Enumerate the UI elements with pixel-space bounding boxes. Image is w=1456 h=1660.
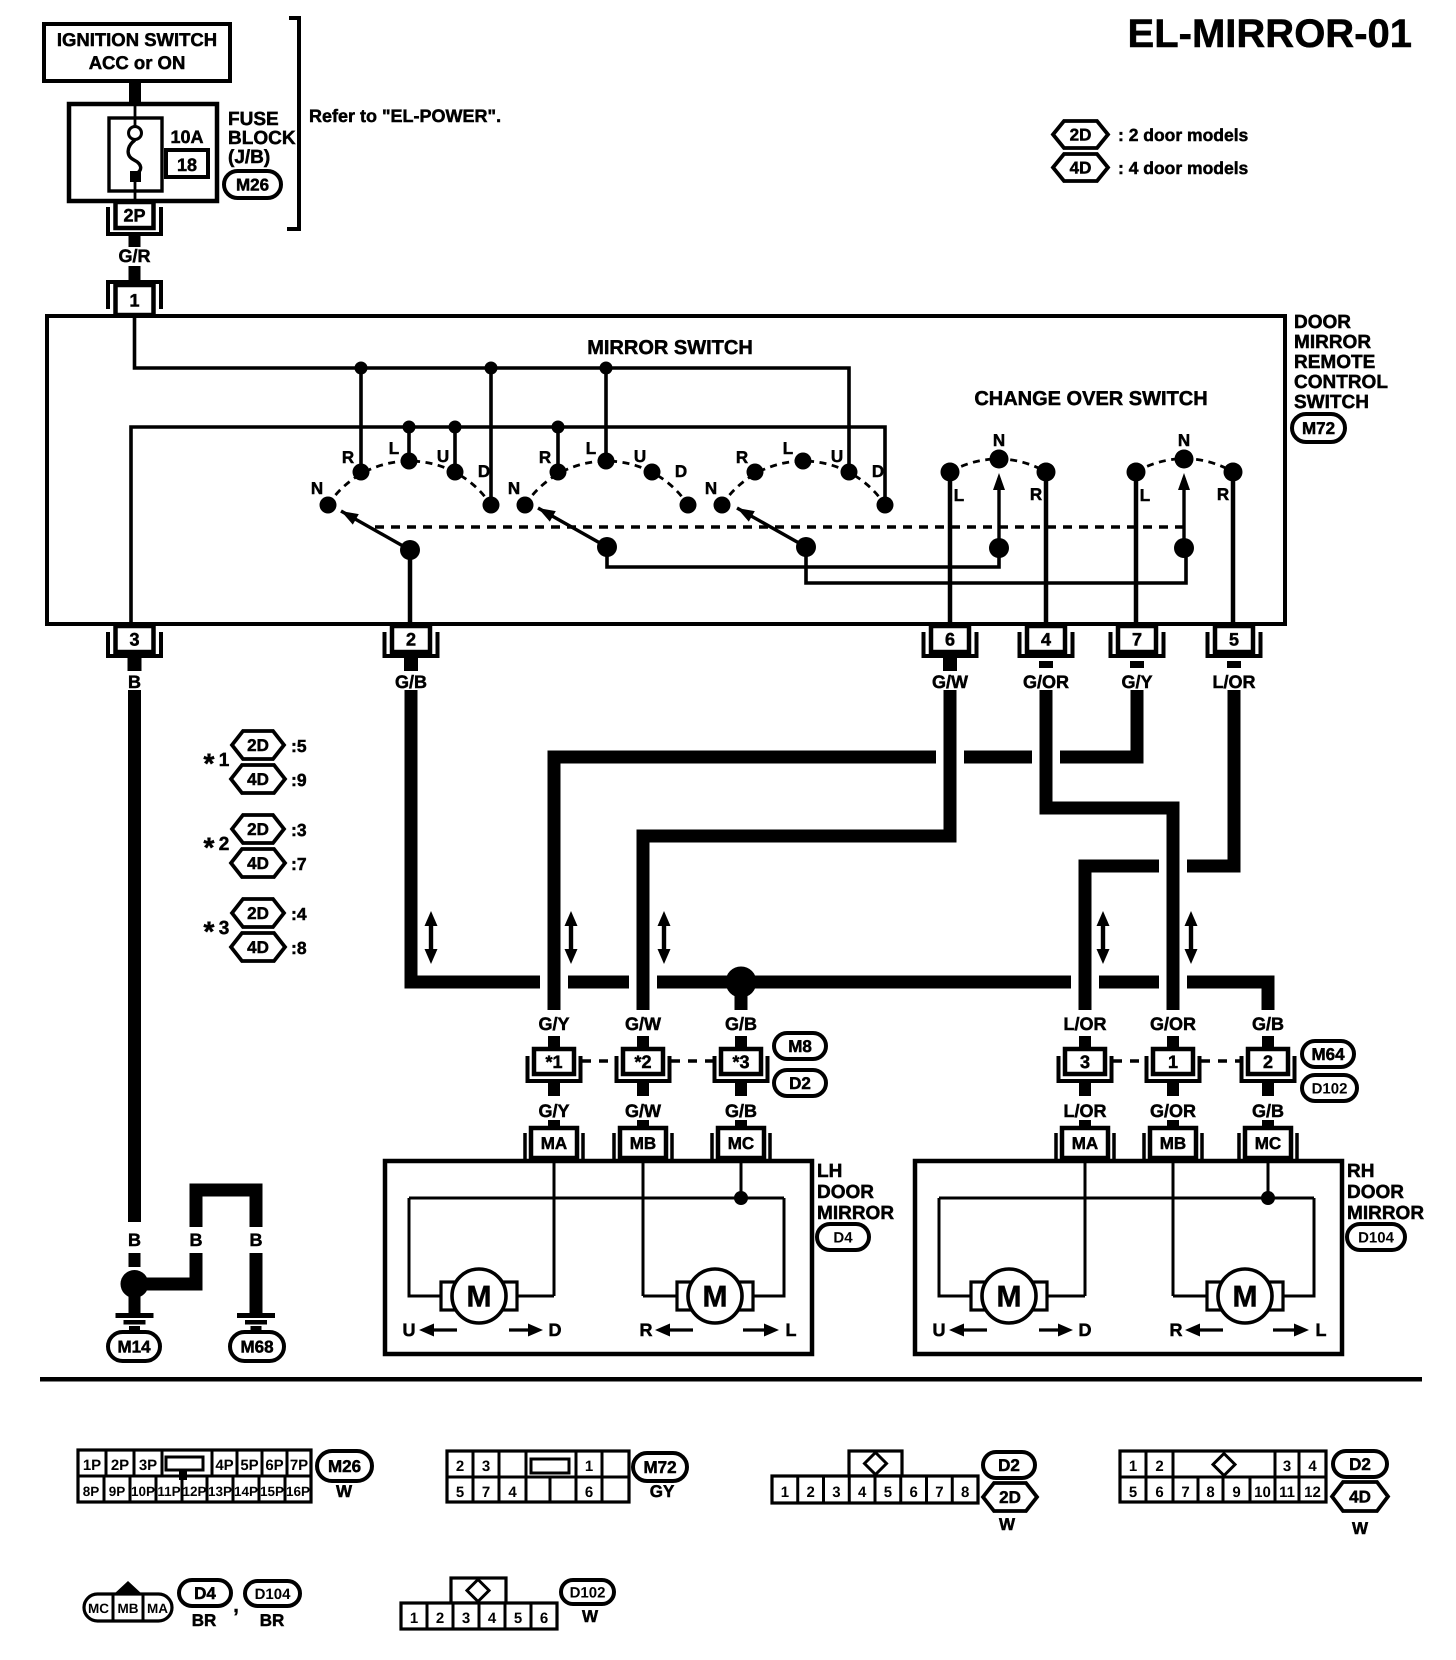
connector M72 pill and color xyxy=(633,1453,687,1481)
svg-text:D2: D2 xyxy=(789,1074,811,1093)
LH internal wires xyxy=(553,1163,556,1296)
LH door mirror box xyxy=(385,1161,812,1354)
legend 4D hexagon : 4 door models xyxy=(1053,154,1108,181)
svg-text:*: * xyxy=(204,832,215,863)
svg-text:3: 3 xyxy=(1283,1458,1291,1475)
svg-text:R: R xyxy=(342,448,354,467)
svg-text:3: 3 xyxy=(462,1610,470,1627)
svg-text:FUSE: FUSE xyxy=(228,109,279,130)
note *1 4D value xyxy=(231,765,285,793)
svg-text:2: 2 xyxy=(436,1610,444,1627)
svg-text:4D: 4D xyxy=(1349,1488,1371,1507)
svg-text:D2: D2 xyxy=(1349,1455,1371,1474)
connector D104 pill xyxy=(1347,1224,1405,1250)
4D hexagon bottom xyxy=(1332,1482,1388,1511)
svg-text:MA: MA xyxy=(147,1601,168,1616)
svg-text:3: 3 xyxy=(832,1484,840,1501)
svg-text:U: U xyxy=(437,447,449,466)
bus line1 from pin 1 xyxy=(135,318,850,468)
svg-text:8: 8 xyxy=(961,1484,969,1501)
wire L/OR segment 2 xyxy=(1085,866,1159,1010)
inline connector 2 xyxy=(1242,1056,1295,1081)
wire stub to mirror connector xyxy=(637,1120,649,1128)
svg-text:3: 3 xyxy=(1080,1052,1090,1072)
svg-text:1: 1 xyxy=(1168,1052,1178,1072)
wire stub to mirror connector xyxy=(1079,1120,1091,1128)
svg-text:4D: 4D xyxy=(247,854,269,873)
svg-text::3: :3 xyxy=(291,820,307,840)
svg-text:D: D xyxy=(549,1320,562,1340)
inline connector *1 xyxy=(528,1056,581,1081)
svg-text:M68: M68 xyxy=(240,1338,273,1357)
svg-text:2: 2 xyxy=(219,834,230,855)
svg-text:1: 1 xyxy=(781,1484,789,1501)
svg-text:2D: 2D xyxy=(1070,126,1092,145)
svg-text:R: R xyxy=(736,448,748,467)
mirror connector MB xyxy=(612,1133,616,1163)
svg-text:G/B: G/B xyxy=(725,1014,757,1034)
wire G/B bus to RH pin 2 xyxy=(1187,982,1268,1010)
wire L/OR from pin 5 segment 1 xyxy=(1187,690,1234,866)
door mirror remote control switch box M72 xyxy=(47,316,1285,624)
svg-text:W: W xyxy=(336,1482,353,1501)
separator line xyxy=(40,1377,1422,1382)
svg-text:R: R xyxy=(1217,485,1229,504)
svg-text:2D: 2D xyxy=(247,820,269,839)
mirror switch section 1 contacts N R L U D xyxy=(320,497,337,514)
RH door mirror box xyxy=(915,1161,1342,1354)
changeover wiper A with vertical arrow xyxy=(989,538,1009,558)
svg-text:G/Y: G/Y xyxy=(538,1014,569,1034)
wire B branch to M68 xyxy=(135,1253,197,1284)
svg-text:MA: MA xyxy=(541,1134,567,1153)
svg-text:*: * xyxy=(204,916,215,947)
wire B stub to junction xyxy=(129,1253,141,1267)
svg-text:2D: 2D xyxy=(247,904,269,923)
svg-text:MC: MC xyxy=(1255,1134,1281,1153)
svg-text:D4: D4 xyxy=(833,1229,853,1246)
svg-text:RH: RH xyxy=(1347,1161,1374,1182)
svg-text:R: R xyxy=(1030,485,1042,504)
svg-text:5P: 5P xyxy=(240,1457,258,1474)
wiper section 2 with arrow xyxy=(597,537,617,557)
bus line2 to pin 3 xyxy=(131,427,885,622)
RH mirror motor left-right M xyxy=(1207,1282,1229,1310)
connector pin 1 of M72 xyxy=(108,282,161,309)
ground symbol M14 xyxy=(116,1313,154,1318)
svg-text:5: 5 xyxy=(514,1610,522,1627)
svg-text:13P: 13P xyxy=(208,1484,232,1499)
LH mirror motor left-right M xyxy=(677,1282,699,1310)
svg-text:DOOR: DOOR xyxy=(1347,1182,1404,1203)
svg-text::5: :5 xyxy=(291,736,307,756)
mirror connector MB xyxy=(1142,1133,1146,1163)
RH junction dot xyxy=(1261,1191,1275,1205)
svg-text:4D: 4D xyxy=(247,770,269,789)
svg-text:6: 6 xyxy=(585,1484,593,1501)
pass-through arrows xyxy=(425,911,438,926)
svg-text:MIRROR: MIRROR xyxy=(1294,332,1371,353)
svg-text:U: U xyxy=(831,447,843,466)
svg-text:CONTROL: CONTROL xyxy=(1294,372,1388,393)
connector D2 pill 4door xyxy=(1333,1451,1387,1477)
svg-text:MA: MA xyxy=(1072,1134,1098,1153)
svg-text:N: N xyxy=(311,479,323,498)
changeover section A contacts L N R xyxy=(941,463,960,482)
legend 2D hexagon : 2 door models xyxy=(1053,121,1108,148)
mirror connector MC xyxy=(1237,1133,1241,1163)
wire ignition to fuse block xyxy=(129,81,141,104)
svg-text:4D: 4D xyxy=(247,938,269,957)
connector D4 pill bottom xyxy=(179,1580,231,1606)
svg-text:G/W: G/W xyxy=(625,1014,661,1034)
svg-text:G/OR: G/OR xyxy=(1150,1101,1196,1121)
connector D102 pill xyxy=(1302,1075,1357,1101)
connector 2P xyxy=(108,207,161,234)
wire G/Y from pin 7 segment 1 xyxy=(1060,690,1137,757)
svg-text:10: 10 xyxy=(1254,1484,1271,1501)
connector face MC MB MA xyxy=(84,1594,172,1621)
connector 3 stub xyxy=(1079,1036,1091,1049)
svg-text:1: 1 xyxy=(1129,1458,1137,1475)
ground symbol M68 xyxy=(237,1313,275,1318)
svg-text:12: 12 xyxy=(1304,1484,1321,1501)
svg-text:D: D xyxy=(1079,1320,1092,1340)
connector D4 pill xyxy=(817,1224,869,1250)
svg-text:*2: *2 xyxy=(634,1052,651,1072)
svg-text:G/B: G/B xyxy=(1252,1101,1284,1121)
connector D102 pill bottom xyxy=(561,1580,614,1604)
RH mirror motor up-down M xyxy=(971,1282,993,1310)
svg-text:8P: 8P xyxy=(83,1484,100,1499)
svg-text:L/OR: L/OR xyxy=(1064,1101,1107,1121)
svg-text:4P: 4P xyxy=(215,1457,233,1474)
svg-text:2P: 2P xyxy=(111,1457,129,1474)
wire G/B junction drop xyxy=(735,982,748,1010)
ground junction dot xyxy=(121,1270,149,1298)
svg-text:U: U xyxy=(403,1320,416,1340)
refer bracket xyxy=(287,18,299,229)
mirror switch section 2 contacts N R L U D xyxy=(517,497,534,514)
mirror connector MC xyxy=(710,1133,714,1163)
fuse number 18 box xyxy=(166,150,208,177)
fuse 18 inner box xyxy=(109,118,162,191)
junction G/B bus xyxy=(726,967,757,998)
svg-text:4: 4 xyxy=(508,1484,517,1501)
svg-text:REMOTE: REMOTE xyxy=(1294,352,1375,373)
svg-text:: 2 door models: : 2 door models xyxy=(1118,125,1249,145)
svg-text:MIRROR SWITCH: MIRROR SWITCH xyxy=(587,337,753,359)
svg-text:D: D xyxy=(872,462,884,481)
svg-text:L/OR: L/OR xyxy=(1213,672,1256,692)
svg-text:2: 2 xyxy=(1263,1052,1273,1072)
svg-text:5: 5 xyxy=(884,1484,892,1501)
svg-text:LH: LH xyxy=(817,1161,842,1182)
svg-text:4: 4 xyxy=(1308,1458,1317,1475)
connector 2 stub xyxy=(1262,1036,1274,1049)
svg-text:G/R: G/R xyxy=(118,246,150,266)
junction dots line1 xyxy=(355,362,368,375)
svg-text:3P: 3P xyxy=(139,1457,157,1474)
changeover section B contact wires to pins xyxy=(1134,472,1139,622)
svg-text:18: 18 xyxy=(177,155,197,175)
wiper 2 wire to changeover wiper A xyxy=(607,547,999,567)
svg-text:W: W xyxy=(999,1515,1016,1534)
svg-text:D2: D2 xyxy=(998,1456,1020,1475)
svg-text:M: M xyxy=(997,1281,1022,1314)
svg-text:W: W xyxy=(1352,1519,1369,1538)
svg-text:R: R xyxy=(539,448,551,467)
svg-text:N: N xyxy=(705,479,717,498)
svg-text:*1: *1 xyxy=(545,1052,562,1072)
svg-text:L: L xyxy=(389,439,399,458)
svg-text:EL-MIRROR-01: EL-MIRROR-01 xyxy=(1128,12,1412,56)
wire G/B bus segment 2 xyxy=(568,976,629,989)
wire stub to mirror connector xyxy=(1262,1120,1274,1128)
wiper 1 wire to pin 2 xyxy=(408,550,413,624)
svg-text:G/B: G/B xyxy=(1252,1014,1284,1034)
connector pin 4 of M72 xyxy=(1020,632,1073,656)
wire B from pin 3 xyxy=(128,690,141,1222)
svg-text:MIRROR: MIRROR xyxy=(817,1203,894,1224)
mirror switch section 1 dashed arc xyxy=(328,461,491,505)
svg-text:R: R xyxy=(640,1320,653,1340)
changeover wiper B with vertical arrow xyxy=(1174,538,1194,558)
svg-text:4: 4 xyxy=(488,1610,497,1627)
svg-text:G/OR: G/OR xyxy=(1023,672,1069,692)
ignition switch box xyxy=(44,24,230,81)
svg-text:D: D xyxy=(478,462,490,481)
svg-text:10P: 10P xyxy=(131,1484,155,1499)
changeover section B contacts L N R xyxy=(1127,463,1146,482)
wire G/R stub xyxy=(129,266,141,282)
svg-text:G/Y: G/Y xyxy=(538,1101,569,1121)
svg-text:G/W: G/W xyxy=(932,672,968,692)
svg-text:8: 8 xyxy=(1206,1484,1214,1501)
svg-text:1P: 1P xyxy=(83,1457,101,1474)
svg-text:D4: D4 xyxy=(194,1584,216,1603)
svg-text:7: 7 xyxy=(1132,629,1142,649)
svg-text:(J/B): (J/B) xyxy=(228,147,270,168)
ground M14 pill xyxy=(108,1332,160,1361)
mirror switch section 2 dashed arc xyxy=(525,461,688,505)
svg-text:MC: MC xyxy=(728,1134,754,1153)
svg-text:1: 1 xyxy=(219,750,230,771)
svg-text:N: N xyxy=(1178,431,1190,450)
svg-text:BR: BR xyxy=(192,1611,217,1630)
note *3 4D value xyxy=(231,933,285,961)
svg-text:2: 2 xyxy=(806,1484,814,1501)
mirror connector MA xyxy=(1054,1133,1058,1163)
inline connector 3 xyxy=(1059,1056,1112,1081)
svg-text:MB: MB xyxy=(630,1134,656,1153)
connector M64 pill xyxy=(1302,1041,1354,1067)
svg-text:2D: 2D xyxy=(247,736,269,755)
connector pin 3 of M72 xyxy=(108,632,161,656)
svg-text:G/W: G/W xyxy=(625,1101,661,1121)
svg-text:M14: M14 xyxy=(117,1338,151,1357)
connector D104 pill bottom xyxy=(245,1581,300,1606)
svg-text:7: 7 xyxy=(935,1484,943,1501)
connector *2 stub xyxy=(637,1036,649,1049)
svg-text:1: 1 xyxy=(585,1458,593,1475)
svg-text:N: N xyxy=(993,431,1005,450)
svg-text:G/OR: G/OR xyxy=(1150,1014,1196,1034)
svg-text::7: :7 xyxy=(291,854,307,874)
svg-text:2: 2 xyxy=(456,1458,464,1475)
svg-text:9: 9 xyxy=(1232,1484,1240,1501)
svg-text:6: 6 xyxy=(540,1610,548,1627)
svg-text:B: B xyxy=(128,1230,141,1250)
connector face D2 4door grid xyxy=(1120,1451,1326,1502)
mirror switch section 3 dashed arc xyxy=(722,461,885,505)
connector face D2 2door grid xyxy=(849,1451,902,1476)
svg-text:14P: 14P xyxy=(234,1484,258,1499)
svg-text:MC: MC xyxy=(88,1601,109,1616)
svg-text:M26: M26 xyxy=(236,176,269,195)
svg-text:L: L xyxy=(586,439,596,458)
wire stub to mirror connector xyxy=(735,1120,747,1128)
connector pin 5 of M72 xyxy=(1208,632,1261,656)
wiper 3 wire to changeover wiper B xyxy=(806,547,1186,583)
svg-text:3: 3 xyxy=(219,918,230,939)
svg-text:R: R xyxy=(1170,1320,1183,1340)
svg-text:N: N xyxy=(508,479,520,498)
svg-text:5: 5 xyxy=(1129,1484,1137,1501)
svg-text:IGNITION SWITCH: IGNITION SWITCH xyxy=(57,29,217,50)
wire G/B bus segment 4 xyxy=(1099,976,1159,989)
svg-text:L: L xyxy=(1140,486,1150,505)
svg-text:L: L xyxy=(954,486,964,505)
svg-text:B: B xyxy=(190,1230,203,1250)
wire B to M68 ground xyxy=(250,1253,263,1315)
svg-text:6: 6 xyxy=(1155,1484,1163,1501)
svg-text:B: B xyxy=(250,1230,263,1250)
RH internal wires xyxy=(1084,1163,1087,1296)
svg-text:10A: 10A xyxy=(170,127,203,147)
svg-text:M: M xyxy=(703,1281,728,1314)
wire stub to mirror connector xyxy=(1167,1120,1179,1128)
svg-text:U: U xyxy=(933,1320,946,1340)
svg-text:5: 5 xyxy=(1229,629,1239,649)
connector pin 6 of M72 xyxy=(924,632,977,656)
wire G/OR from pin 4 xyxy=(1046,690,1173,1010)
changeover section B dashed arc xyxy=(1136,459,1233,472)
connector 1 stub xyxy=(1167,1036,1179,1049)
mirror connector MA xyxy=(523,1133,527,1163)
mirror switch section 3 contacts N R L U D xyxy=(714,497,731,514)
svg-text:2: 2 xyxy=(406,629,416,649)
svg-text:6: 6 xyxy=(909,1484,917,1501)
svg-text:7P: 7P xyxy=(290,1457,308,1474)
connector D2 pill xyxy=(774,1070,826,1096)
svg-text:3: 3 xyxy=(129,629,139,649)
svg-text:BLOCK: BLOCK xyxy=(228,128,296,149)
svg-text:L: L xyxy=(783,439,793,458)
svg-text:2: 2 xyxy=(1155,1458,1163,1475)
wire G/B bus segment 3 xyxy=(657,976,1071,989)
svg-text:*: * xyxy=(204,748,215,779)
2D hexagon bottom xyxy=(983,1483,1037,1511)
connector face M26 grid xyxy=(78,1450,311,1502)
svg-text:3: 3 xyxy=(482,1458,490,1475)
svg-text:1: 1 xyxy=(129,290,139,310)
svg-text:6P: 6P xyxy=(265,1457,283,1474)
svg-text:U: U xyxy=(634,447,646,466)
svg-text:4: 4 xyxy=(1041,629,1051,649)
connector face D102 grid xyxy=(451,1578,506,1603)
svg-text:12P: 12P xyxy=(182,1484,206,1499)
inline connector *2 xyxy=(617,1056,670,1081)
connector pin 2 of M72 xyxy=(385,632,438,656)
wire stub below 2P xyxy=(129,236,141,247)
dashed links between inline connectors xyxy=(582,1059,615,1063)
svg-text:BR: BR xyxy=(260,1611,285,1630)
svg-text:9P: 9P xyxy=(109,1484,126,1499)
svg-text:16P: 16P xyxy=(286,1484,310,1499)
svg-text:MB: MB xyxy=(118,1601,139,1616)
connector face M72 grid xyxy=(447,1451,629,1502)
svg-text::8: :8 xyxy=(291,938,307,958)
svg-text:G/Y: G/Y xyxy=(1121,672,1152,692)
svg-text:D102: D102 xyxy=(1312,1080,1348,1097)
svg-text:D: D xyxy=(675,462,687,481)
svg-text:G/B: G/B xyxy=(395,672,427,692)
svg-text:M72: M72 xyxy=(643,1458,676,1477)
svg-text:7: 7 xyxy=(482,1484,490,1501)
LH mirror motor up-down M xyxy=(441,1282,463,1310)
svg-text:DOOR: DOOR xyxy=(817,1182,874,1203)
wiper section 1 with arrow xyxy=(400,540,420,560)
svg-text:,: , xyxy=(233,1595,239,1617)
svg-text:D102: D102 xyxy=(570,1584,606,1601)
svg-text:2D: 2D xyxy=(999,1488,1021,1507)
connector *1 stub xyxy=(548,1036,560,1049)
wire stub to mirror connector xyxy=(548,1120,560,1128)
svg-text:11: 11 xyxy=(1279,1484,1295,1501)
svg-text:7: 7 xyxy=(1181,1484,1189,1501)
contact feed wires xyxy=(359,368,363,470)
connector D2 pill 2door xyxy=(983,1452,1035,1478)
svg-text:W: W xyxy=(582,1607,599,1626)
svg-text:6: 6 xyxy=(945,629,955,649)
svg-text:M26: M26 xyxy=(328,1457,361,1476)
svg-text:L: L xyxy=(786,1320,797,1340)
svg-text:CHANGE OVER SWITCH: CHANGE OVER SWITCH xyxy=(974,388,1207,410)
svg-text:: 4 door models: : 4 door models xyxy=(1118,158,1249,178)
connector M8 pill xyxy=(774,1033,826,1059)
svg-text:4D: 4D xyxy=(1070,159,1092,178)
svg-text:MIRROR: MIRROR xyxy=(1347,1203,1424,1224)
svg-text:M: M xyxy=(467,1281,492,1314)
svg-text:L: L xyxy=(1316,1320,1327,1340)
svg-text:D104: D104 xyxy=(1358,1229,1395,1246)
svg-text:1: 1 xyxy=(410,1610,418,1627)
wire G/Y segment 3 xyxy=(554,757,936,1010)
svg-text:B: B xyxy=(128,672,141,692)
wire B to M14 ground xyxy=(129,1296,141,1314)
wiper section 3 with arrow xyxy=(796,537,816,557)
svg-text:4: 4 xyxy=(858,1484,867,1501)
mechanical link dashed line xyxy=(375,525,1184,529)
svg-text:M8: M8 xyxy=(788,1037,812,1056)
svg-text:SWITCH: SWITCH xyxy=(1294,392,1369,413)
svg-text:*3: *3 xyxy=(732,1052,749,1072)
svg-text:MB: MB xyxy=(1160,1134,1186,1153)
fuse block (J/B) box xyxy=(69,104,217,201)
wire G/W from pin 6 xyxy=(643,690,950,1010)
LH junction dot xyxy=(734,1191,748,1205)
